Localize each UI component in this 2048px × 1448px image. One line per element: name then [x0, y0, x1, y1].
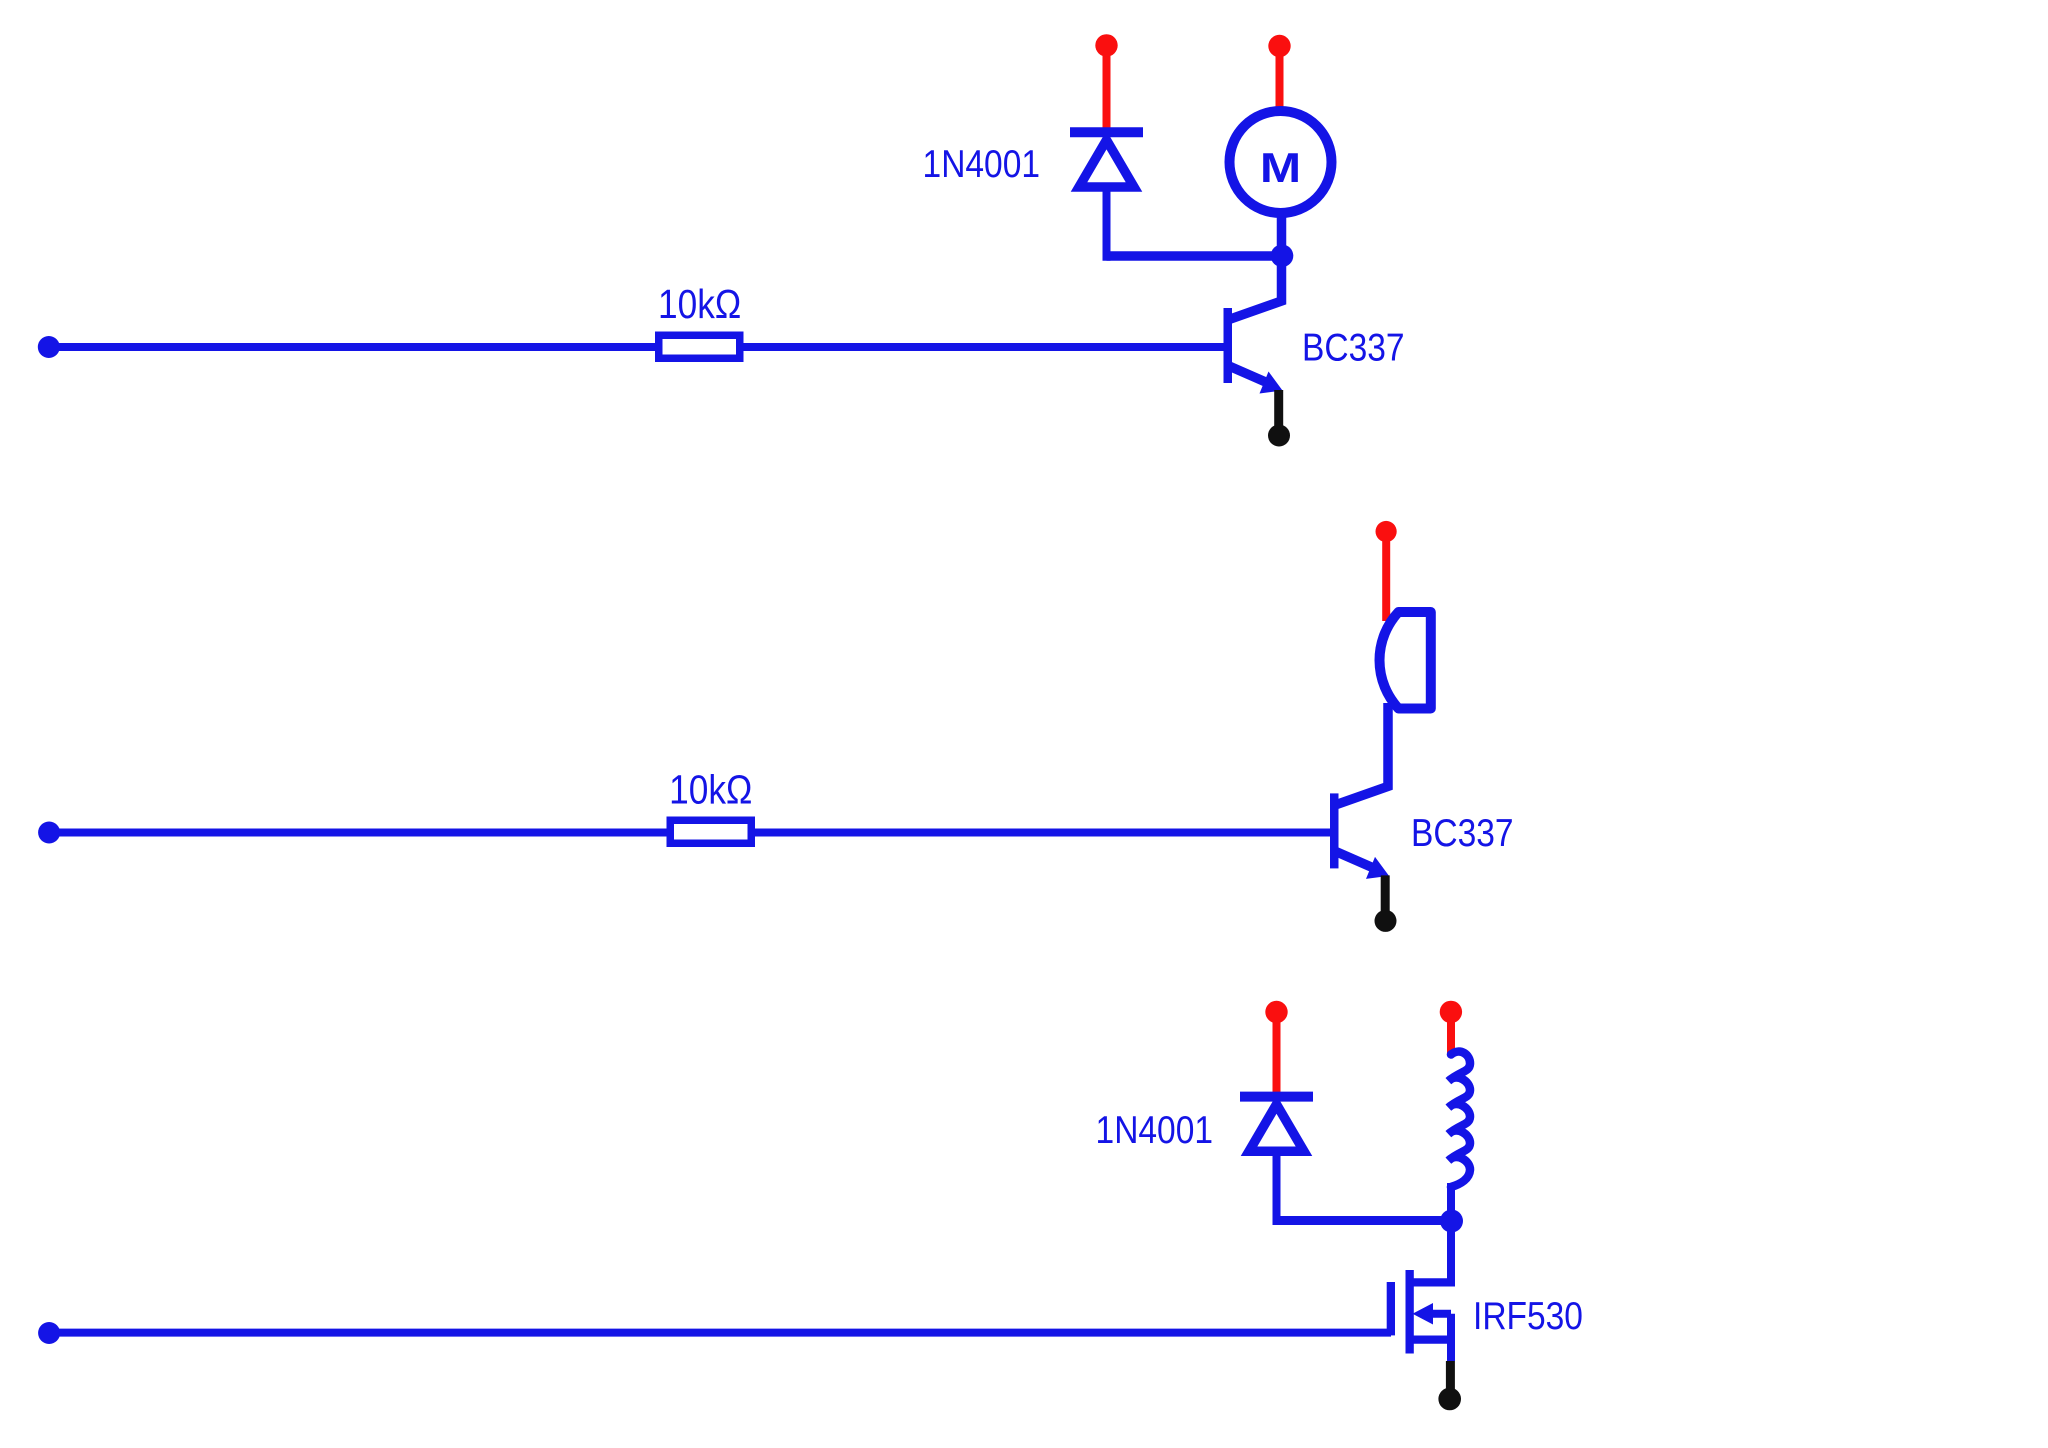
inductor L1 coil	[1449, 1052, 1471, 1187]
emitter lead Q2 (black)	[1381, 875, 1390, 915]
terminal dot Q2 emitter	[1375, 910, 1397, 932]
mosfet Q3 source lead	[1447, 1314, 1455, 1361]
svg-text:10kΩ: 10kΩ	[658, 282, 741, 328]
node IN2	[38, 822, 60, 844]
emitter lead Q1 (black)	[1274, 390, 1283, 430]
mosfet Q3 channel bar	[1406, 1270, 1414, 1354]
mosfet Q3 gate bar	[1387, 1282, 1395, 1335]
diode D2 cathode bar	[1240, 1092, 1313, 1102]
power dot buzzer	[1376, 521, 1397, 542]
power stub D2	[1273, 1016, 1281, 1094]
mosfet Q3 body arrow	[1430, 1310, 1451, 1318]
mosfet Q3 source stub	[1410, 1335, 1451, 1343]
transistor Q2 collector	[1336, 703, 1389, 805]
transistor Q2 emitter	[1336, 851, 1376, 869]
svg-text:M: M	[1260, 144, 1301, 192]
svg-text:IRF530: IRF530	[1473, 1294, 1583, 1338]
wire base left	[49, 343, 659, 351]
transistor Q2 BC337 base bar	[1330, 793, 1339, 868]
inductor L1 power stub	[1447, 1016, 1455, 1056]
transistor Q1 collector	[1229, 213, 1282, 320]
node IN1	[38, 336, 60, 358]
wire base right	[744, 343, 1229, 351]
wire base left	[49, 829, 670, 837]
transistor Q1 BC337 base bar	[1224, 308, 1233, 383]
diode D1 cathode bar	[1070, 127, 1143, 137]
power dot D2	[1265, 1001, 1287, 1023]
resistor R1 10k	[659, 335, 740, 358]
diode D1 anode lead	[1103, 185, 1111, 261]
junction node A	[1271, 245, 1294, 268]
transistor Q1 emitter	[1229, 366, 1269, 384]
node IN3	[38, 1322, 60, 1344]
wire diode to junction	[1107, 251, 1283, 261]
power stub D1	[1103, 50, 1111, 130]
svg-text:10kΩ: 10kΩ	[669, 767, 752, 813]
mosfet Q3 drain lead	[1447, 1221, 1455, 1287]
wire gate	[49, 1329, 1391, 1337]
resistor R2 10k	[670, 820, 751, 843]
mosfet Q3 drain stub	[1410, 1278, 1451, 1286]
power stub buzzer	[1382, 536, 1390, 621]
diode D2 anode lead	[1273, 1149, 1281, 1225]
svg-text:1N4001: 1N4001	[923, 142, 1040, 186]
power dot motor	[1268, 35, 1290, 57]
power dot D1	[1095, 34, 1117, 56]
buzzer BZ1	[1380, 612, 1431, 709]
terminal dot Q1 emitter	[1268, 425, 1290, 447]
wire base right	[755, 829, 1335, 837]
diode D1 triangle	[1079, 140, 1134, 187]
diode D2 triangle	[1249, 1104, 1304, 1151]
power dot L1	[1440, 1001, 1462, 1023]
power stub motor	[1276, 50, 1284, 112]
svg-text:1N4001: 1N4001	[1096, 1108, 1213, 1152]
junction node B	[1440, 1210, 1463, 1233]
svg-text:BC337: BC337	[1411, 811, 1514, 855]
wire diode to junction	[1277, 1216, 1452, 1225]
motor M1	[1230, 111, 1332, 213]
inductor L1 bottom lead	[1447, 1183, 1455, 1221]
source lead Q3 (black)	[1446, 1361, 1455, 1393]
terminal dot Q3 source	[1438, 1388, 1461, 1411]
svg-text:BC337: BC337	[1302, 325, 1405, 369]
